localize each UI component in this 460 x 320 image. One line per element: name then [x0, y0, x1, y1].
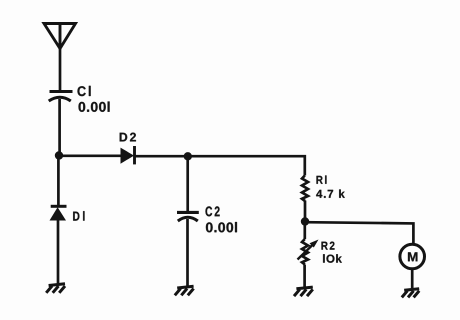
- wire node C to meter: [305, 222, 413, 244]
- label C2 value 0.001: [206, 222, 237, 232]
- label D2: [120, 133, 136, 142]
- wire R1 to node C: [304, 201, 307, 222]
- label C1 value 0.001: [79, 102, 110, 112]
- diode D2: [121, 146, 135, 164]
- label C1: [78, 86, 91, 96]
- label D1: [73, 211, 84, 220]
- ground meter: [402, 289, 419, 298]
- label R1: [317, 175, 327, 183]
- meter M: [400, 244, 425, 269]
- wire node B to R1: [188, 156, 305, 175]
- label C2: [206, 206, 220, 216]
- wire meter to ground: [411, 269, 414, 289]
- wire antenna to C1: [59, 48, 62, 91]
- wire D1 to ground: [57, 221, 60, 285]
- potentiometer R2: [298, 239, 319, 265]
- node A junction: [55, 151, 63, 159]
- wire R2 to ground: [303, 265, 306, 288]
- wire node A to D2: [59, 154, 121, 157]
- label R1 value 4.7k: [316, 189, 345, 197]
- capacitor C2: [177, 212, 199, 221]
- antenna: [44, 24, 76, 49]
- wire node B to C2: [186, 156, 189, 212]
- wire node A to D1: [57, 156, 60, 207]
- wire node C to R2: [303, 222, 306, 240]
- ground C2: [175, 286, 194, 295]
- ground R2: [294, 287, 313, 296]
- wire C2 to ground: [186, 219, 189, 287]
- wire D2 to node B: [135, 155, 189, 158]
- label R2: [322, 242, 335, 250]
- node C junction: [301, 217, 309, 225]
- wire C1 to node A: [58, 99, 61, 155]
- ground left: [46, 284, 65, 293]
- resistor R1: [302, 176, 308, 202]
- capacitor C1: [49, 92, 73, 102]
- label R2 value 10k: [323, 254, 342, 262]
- diode D1: [50, 206, 67, 220]
- node B junction: [184, 152, 192, 160]
